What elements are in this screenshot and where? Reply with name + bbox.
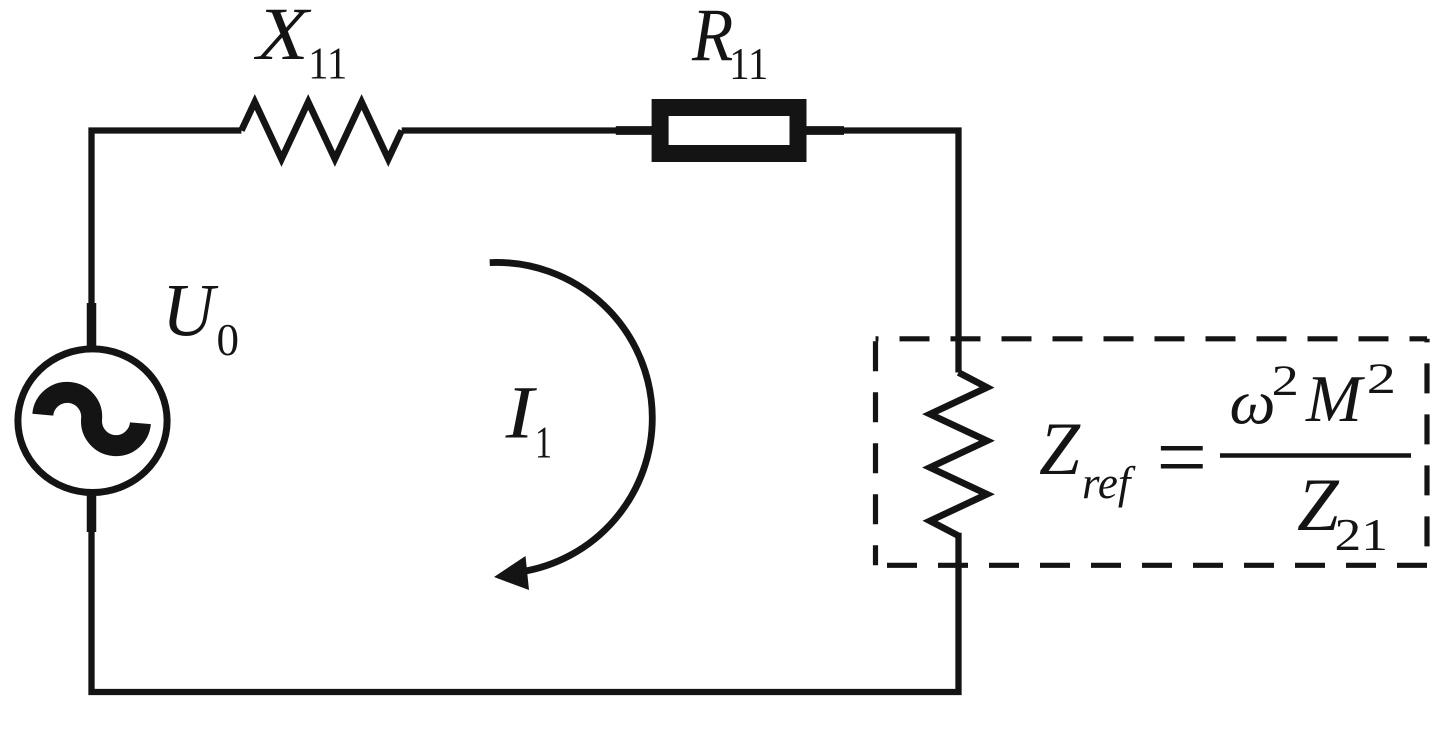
svg-text:ref: ref <box>1082 458 1136 508</box>
label I1 <box>505 372 552 468</box>
label X11 <box>253 0 347 89</box>
dashed box around Zref : left edge <box>873 339 878 566</box>
svg-text:=: = <box>1156 408 1207 507</box>
svg-text:Z: Z <box>1039 408 1081 491</box>
svg-text:R: R <box>691 0 733 77</box>
svg-text:ω: ω <box>1230 370 1276 438</box>
svg-text:2: 2 <box>1367 356 1396 403</box>
svg-text:0: 0 <box>217 315 240 365</box>
resistor Zref zigzag <box>930 373 987 536</box>
loop current arrowhead I1 <box>494 556 529 590</box>
wire R11 right stub <box>806 126 844 135</box>
svg-text:1: 1 <box>535 418 552 468</box>
svg-text:X: X <box>253 0 312 76</box>
wire source bottom stub <box>87 493 97 532</box>
wire source top stub <box>87 303 97 347</box>
wire R11 left stub <box>616 126 652 135</box>
svg-text:M: M <box>1305 362 1365 436</box>
svg-text:11: 11 <box>308 39 347 89</box>
label R11 <box>691 0 768 89</box>
wire top-right corner down to Zref <box>806 131 959 373</box>
resistor X11 <box>241 102 401 159</box>
formula Zref = omega^2 M^2 / Z21 <box>1039 356 1411 560</box>
svg-text:U: U <box>162 270 219 353</box>
wire left side, bottom side, lower right side <box>92 131 959 693</box>
label U0 <box>162 270 239 366</box>
loop current arrow I1 arc <box>490 262 653 572</box>
dashed box around Zref : right edge <box>1424 339 1429 566</box>
voltage source U0 circle <box>18 349 167 493</box>
svg-text:21: 21 <box>1335 509 1389 560</box>
svg-text:11: 11 <box>729 39 768 89</box>
dashed box around Zref : top edge <box>876 336 1428 341</box>
voltage source sine symbol <box>41 390 143 447</box>
svg-text:I: I <box>505 372 538 455</box>
svg-text:2: 2 <box>1272 358 1299 405</box>
wire between X11 and R11 <box>402 127 652 133</box>
dashed box around Zref : bottom edge <box>876 563 1428 568</box>
resistor R11 <box>660 108 798 154</box>
